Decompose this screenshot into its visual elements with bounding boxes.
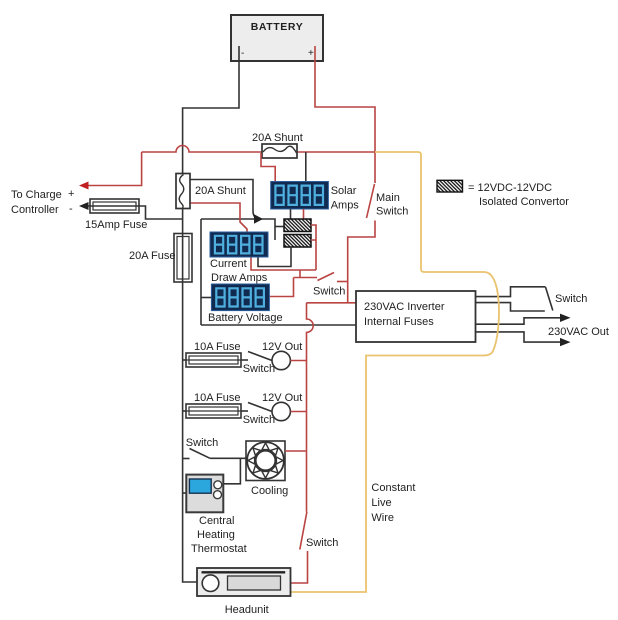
wire battery negative terminal to left rail bbox=[183, 46, 239, 174]
current draw amps display U2 bbox=[210, 232, 268, 257]
svg-text:Thermostat: Thermostat bbox=[191, 543, 247, 555]
wire red bus left of shunt S2 (hops over rail) bbox=[142, 146, 262, 152]
label To Charge Controller bbox=[11, 188, 74, 216]
svg-text:Amps: Amps bbox=[331, 200, 360, 212]
battery voltage display U3 bbox=[211, 284, 269, 311]
wire main switch to inverter feed node bbox=[348, 221, 375, 303]
switch SW2 left lead bbox=[294, 277, 318, 279]
cooling fan M1 bbox=[246, 441, 285, 481]
svg-text:Current: Current bbox=[210, 258, 247, 270]
svg-text:Battery Voltage: Battery Voltage bbox=[208, 312, 283, 324]
svg-text:Switch: Switch bbox=[186, 437, 218, 449]
wire inverter output live to switch SW5 bbox=[476, 287, 546, 297]
wire node B drop bbox=[299, 270, 301, 278]
svg-text:Isolated Convertor: Isolated Convertor bbox=[479, 196, 569, 208]
svg-text:= 12VDC-12VDC: = 12VDC-12VDC bbox=[468, 182, 552, 194]
wire battery voltage display right pin to switch SW2 (red) bbox=[269, 278, 293, 297]
wire switch SW6 to fan M1 bbox=[210, 457, 246, 459]
svg-text:To Charge: To Charge bbox=[11, 189, 62, 201]
svg-text:BATTERY: BATTERY bbox=[251, 21, 304, 33]
main switch SW1 blade bbox=[367, 184, 375, 218]
svg-text:230VAC Out: 230VAC Out bbox=[548, 326, 609, 338]
svg-text:10A Fuse: 10A Fuse bbox=[194, 392, 240, 404]
wire convertor IC1/IC2 right pins (red) bbox=[311, 225, 316, 270]
wire charge controller negative through fuse F1 bbox=[84, 206, 183, 219]
switch SW3 left lead bbox=[241, 359, 248, 361]
wire current display bottom red pin to node B bbox=[251, 258, 316, 271]
arrowhead 230VAC out return bbox=[560, 338, 571, 346]
switch SW2 blade bbox=[318, 273, 335, 281]
svg-text:+: + bbox=[308, 48, 314, 59]
svg-text:Switch: Switch bbox=[313, 286, 345, 298]
fuse F4 (10A) bbox=[186, 404, 241, 418]
svg-text:12V Out: 12V Out bbox=[262, 341, 302, 353]
wire red feed to inverter left pin bbox=[307, 302, 357, 304]
svg-text:-: - bbox=[69, 203, 73, 215]
svg-text:+: + bbox=[68, 188, 74, 200]
wire 230VAC out return bbox=[476, 332, 562, 342]
svg-text:Draw Amps: Draw Amps bbox=[211, 272, 268, 284]
wire left link vertical (node A down) bbox=[200, 219, 202, 325]
wire node A to convertors IC1/IC2 left pins bbox=[201, 219, 275, 240]
switch SW7 blade (red) bbox=[300, 512, 307, 550]
svg-text:Controller: Controller bbox=[11, 204, 59, 216]
switch SW4 blade bbox=[248, 403, 272, 412]
wire left rail (shunt S1 to headunit) bbox=[183, 209, 197, 583]
solar amps display U1 bbox=[271, 182, 329, 210]
wire switch SW7 to headunit right pin (red) bbox=[291, 551, 308, 583]
svg-text:Wire: Wire bbox=[371, 512, 394, 524]
12V out socket J1 bbox=[272, 351, 290, 369]
svg-text:20A Fuse: 20A Fuse bbox=[129, 250, 175, 262]
svg-text:230VAC Inverter: 230VAC Inverter bbox=[364, 301, 445, 313]
svg-text:10A Fuse: 10A Fuse bbox=[194, 341, 240, 353]
svg-text:Cooling: Cooling bbox=[251, 485, 288, 497]
wire rail to fuse F3 bbox=[183, 359, 186, 361]
svg-text:Switch: Switch bbox=[243, 363, 275, 375]
switch SW6 left lead bbox=[183, 458, 190, 460]
legend isolated convertor key bbox=[437, 180, 569, 208]
wire shunt S1 right-top to node A bbox=[190, 180, 261, 220]
wire inverter output return to switch SW5 bbox=[476, 303, 545, 311]
switch SW2 right lead bbox=[337, 281, 348, 283]
wire battery voltage display left pin to left link bbox=[201, 297, 211, 299]
svg-text:Live: Live bbox=[371, 497, 391, 509]
wire socket J2 to red rail bbox=[290, 411, 306, 413]
svg-text:Internal Fuses: Internal Fuses bbox=[364, 316, 434, 328]
svg-text:Central: Central bbox=[199, 515, 234, 527]
arrowhead on node A wire bbox=[254, 214, 263, 224]
switch SW3 blade bbox=[248, 352, 272, 361]
switch SW6 blade bbox=[190, 449, 211, 459]
central heating thermostat U5 bbox=[186, 475, 223, 513]
wire branch to thermostat bbox=[222, 458, 241, 484]
svg-text:20A Shunt: 20A Shunt bbox=[252, 132, 303, 144]
wire red rail down (hop over black link) bbox=[307, 303, 314, 512]
wire solar display bottom pin to convertor IC1 (red) bbox=[303, 209, 305, 219]
shunt S2 (20A Shunt, top) bbox=[262, 144, 297, 158]
svg-text:Switch: Switch bbox=[555, 293, 587, 305]
wire rail to fuse F4 bbox=[183, 410, 186, 412]
inverter U4 (230VAC) bbox=[356, 291, 476, 342]
svg-text:Heating: Heating bbox=[197, 529, 235, 541]
switch SW4 left lead bbox=[241, 410, 248, 412]
wire rail to thermostat left pin bbox=[183, 492, 187, 494]
fuse F2 (20A, vertical) bbox=[174, 234, 192, 283]
headunit U6 bbox=[197, 568, 291, 596]
wire socket J1 to red rail bbox=[290, 360, 306, 362]
switch SW5 blade bbox=[546, 287, 553, 311]
svg-text:Switch: Switch bbox=[243, 414, 275, 426]
svg-text:Main: Main bbox=[376, 192, 400, 204]
svg-text:Constant: Constant bbox=[371, 482, 415, 494]
wire constant live (yellow) bbox=[291, 152, 499, 592]
battery B1 bbox=[231, 15, 323, 61]
shunt S1 (20A Shunt, left) bbox=[176, 174, 190, 209]
svg-text:Switch: Switch bbox=[306, 537, 338, 549]
wire fan M1 to red rail bbox=[285, 450, 307, 452]
svg-text:15Amp Fuse: 15Amp Fuse bbox=[85, 219, 147, 231]
wire bus tap to solar display top right pin bbox=[305, 152, 307, 182]
svg-text:20A Shunt: 20A Shunt bbox=[195, 185, 246, 197]
wire bottom link to inverter left pin bbox=[201, 324, 356, 326]
isolated convertor IC2 bbox=[284, 235, 311, 248]
wire red bus right of shunt S2 to main node bbox=[297, 151, 375, 153]
fuse F1 (15Amp) bbox=[90, 199, 139, 213]
isolated convertor IC1 bbox=[284, 219, 311, 232]
arrowhead charge controller positive bbox=[79, 182, 89, 190]
fuse F3 (10A) bbox=[186, 353, 241, 367]
svg-text:Switch: Switch bbox=[376, 206, 408, 218]
wire to charge controller positive (red) bbox=[86, 152, 142, 186]
wire current display bottom pin to convertor IC2 bottom pin bbox=[258, 247, 291, 267]
svg-text:Headunit: Headunit bbox=[225, 604, 269, 616]
svg-text:-: - bbox=[241, 48, 244, 59]
arrowhead charge controller negative bbox=[79, 202, 89, 210]
arrowhead 230VAC out live bbox=[560, 314, 571, 322]
wire shunt S2 left to solar display top pin (red) bbox=[261, 153, 275, 182]
svg-text:12V Out: 12V Out bbox=[262, 392, 302, 404]
wire stub to IC1 left pin bbox=[275, 226, 284, 228]
12V out socket J2 bbox=[272, 402, 290, 420]
wire battery positive terminal to main switch (red) bbox=[315, 46, 375, 183]
wire 230VAC out live bbox=[476, 318, 562, 324]
svg-text:Solar: Solar bbox=[331, 185, 357, 197]
wire shunt S1 right to current display top pin (red) bbox=[190, 203, 247, 232]
wire solar display bottom pin to convertor IC1 (black) bbox=[290, 209, 292, 219]
